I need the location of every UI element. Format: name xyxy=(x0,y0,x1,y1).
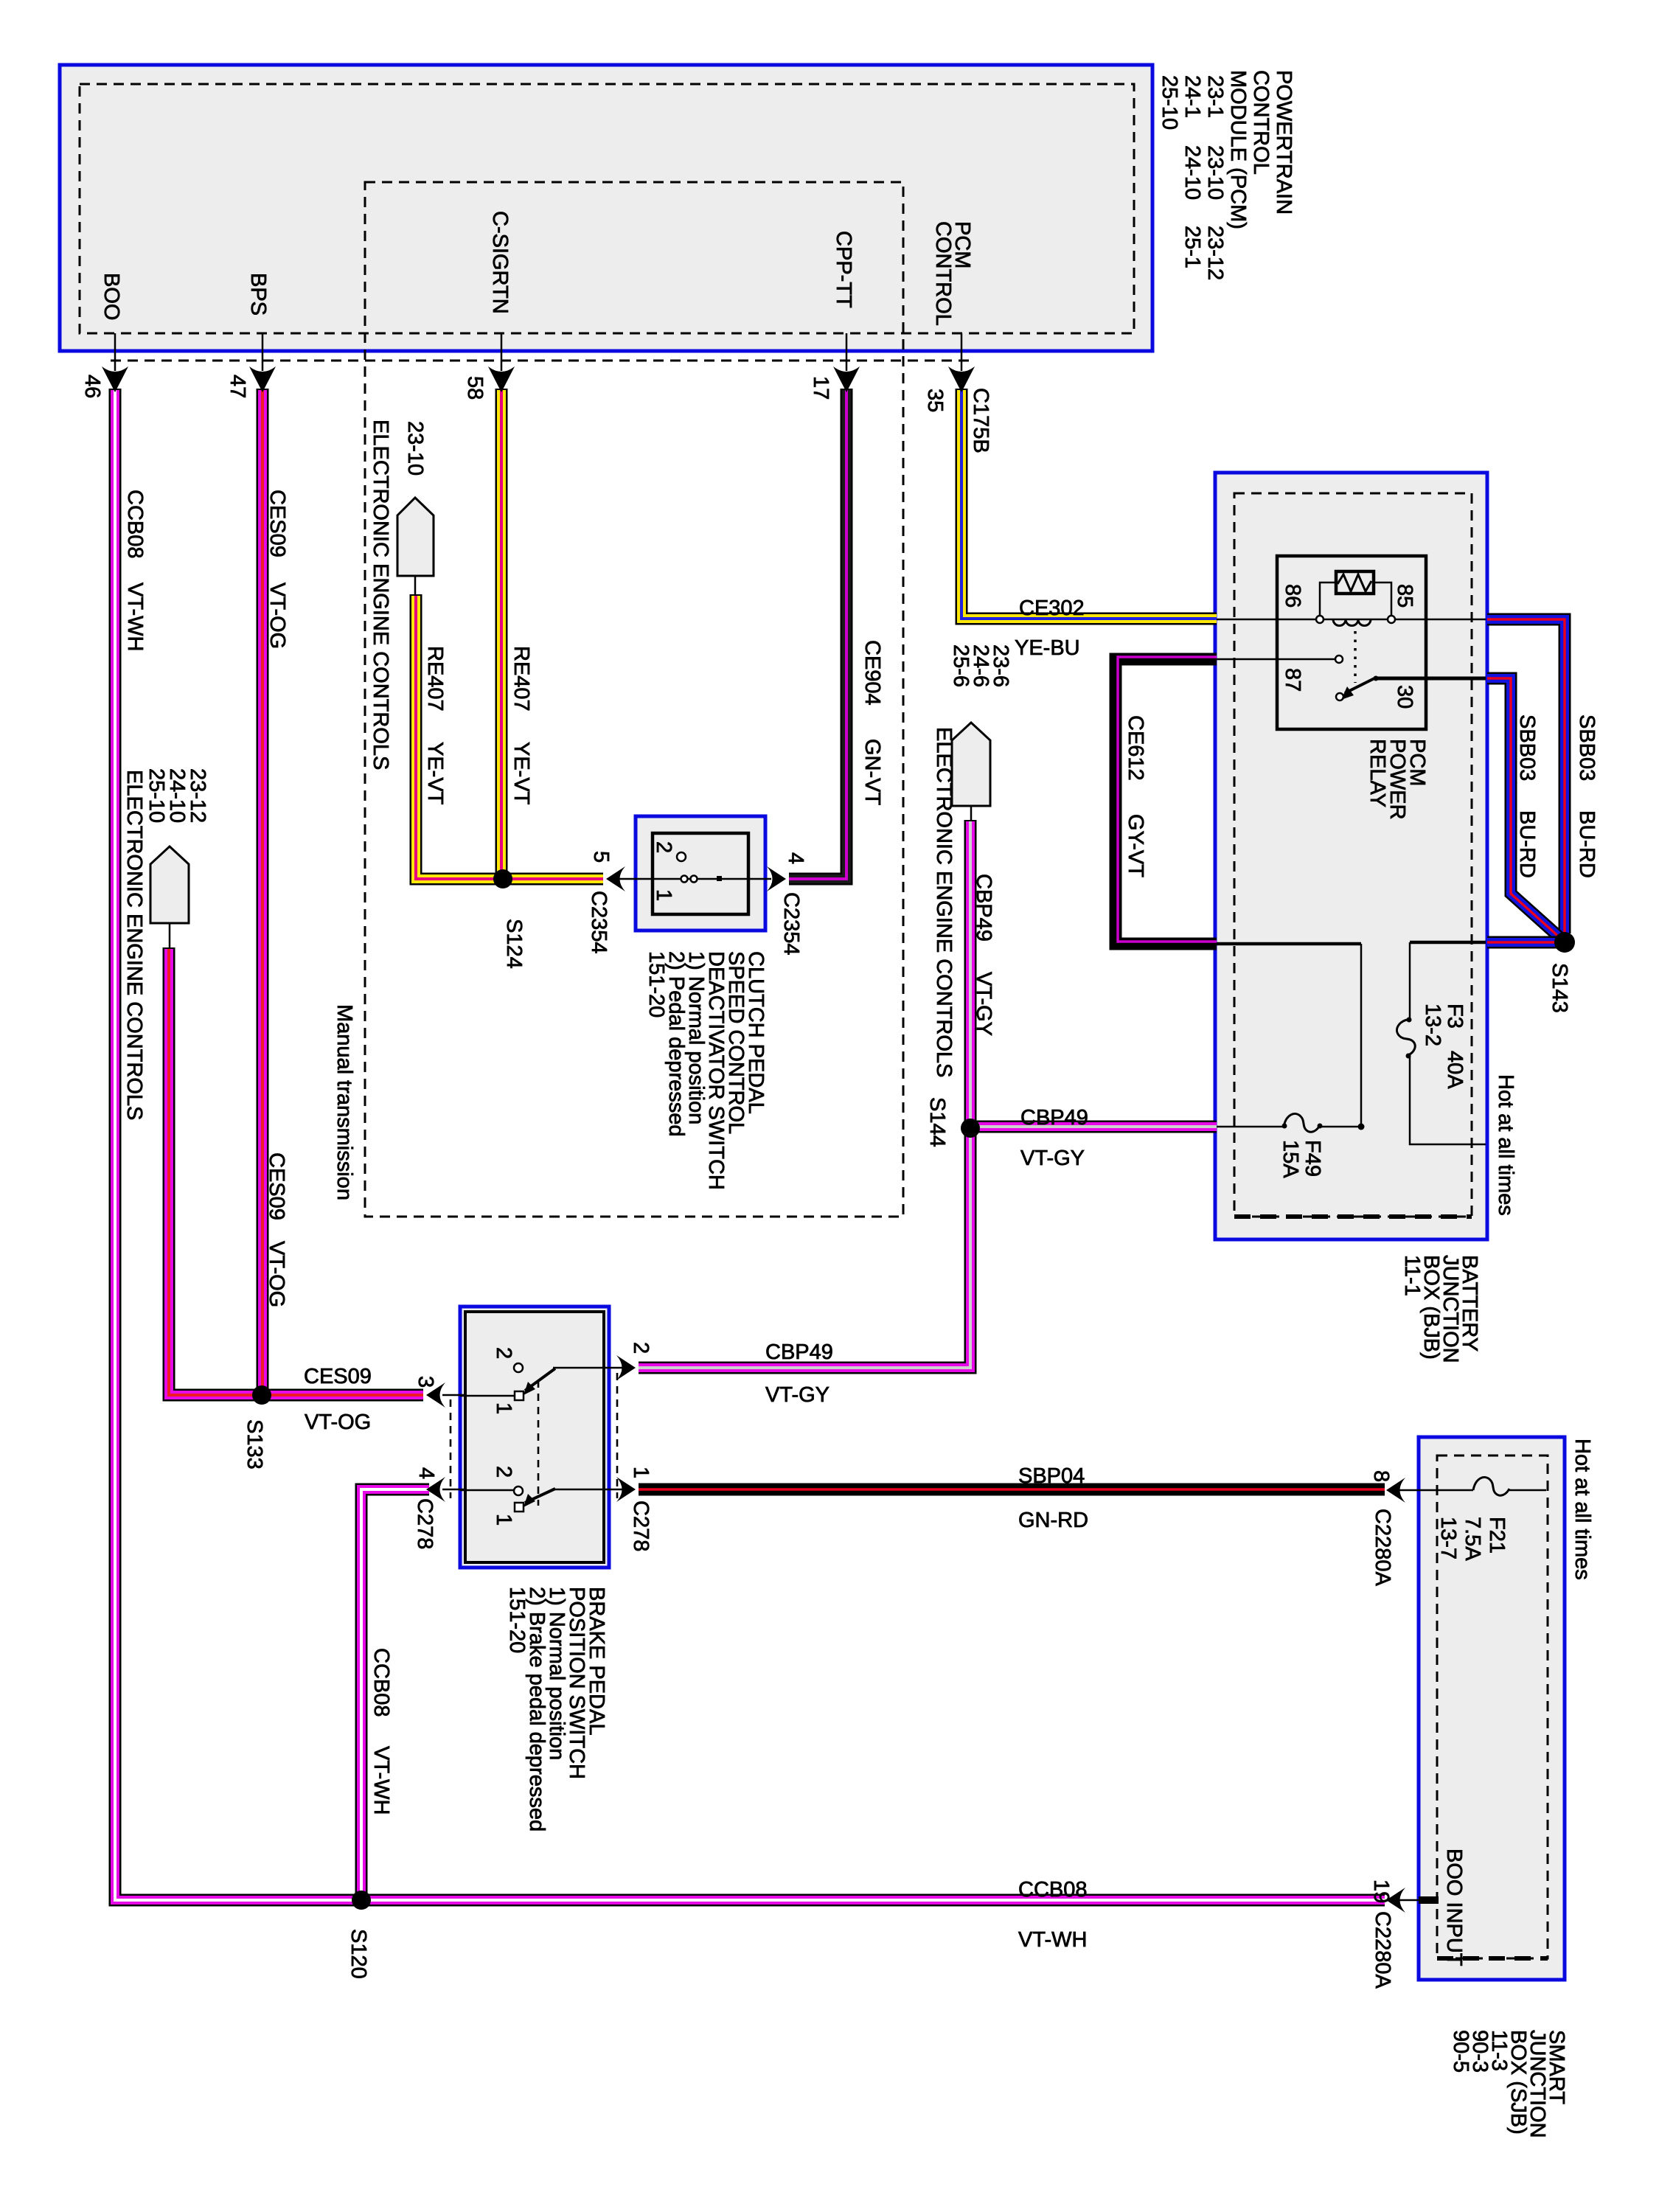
label wire CE904 GN-VT xyxy=(860,640,884,806)
label PCM POWER RELAY xyxy=(1366,739,1429,820)
wire SBP04 GN-RD from brake switch pin 1 to SJB pin 8 xyxy=(639,1484,1385,1496)
clutch switch internals xyxy=(619,852,771,883)
dashed connector line C278 right xyxy=(616,1373,619,1498)
svg-text:2: 2 xyxy=(652,841,675,853)
label clutch pin 2 xyxy=(652,841,675,853)
svg-text:87: 87 xyxy=(1281,668,1304,692)
fuse F3 40A xyxy=(1397,942,1486,1144)
svg-text:VT-OG: VT-OG xyxy=(265,582,289,649)
label Hot at all times SJB xyxy=(1571,1439,1594,1580)
label connector C2354 left xyxy=(587,891,611,953)
svg-text:13-2: 13-2 xyxy=(1421,1004,1444,1046)
svg-text:35: 35 xyxy=(923,389,947,412)
svg-text:7.5A: 7.5A xyxy=(1461,1517,1484,1561)
splice dot S124 xyxy=(493,869,512,888)
svg-text:2: 2 xyxy=(492,1466,515,1478)
label wire CE612 GY-VT xyxy=(1124,715,1147,877)
svg-text:SBB03: SBB03 xyxy=(1515,714,1539,781)
wire SBB03 BU-RD from S143 into BJB fuse F3 xyxy=(1487,936,1565,949)
wire CES09 VT-OG branch S133 to pennant and to pin 3 xyxy=(169,947,423,1395)
svg-text:CONTROL: CONTROL xyxy=(931,221,955,326)
splice dot S133 xyxy=(252,1385,271,1405)
svg-text:1: 1 xyxy=(492,1402,515,1414)
svg-text:C175B: C175B xyxy=(969,388,992,453)
label relay pin 85 xyxy=(1393,584,1416,608)
wire CE612 GY-VT from relay pin 87 loop to fuse F49 feed xyxy=(1116,657,1217,944)
label pennant 3 ELECTRONIC ENGINE CONTROLS xyxy=(932,727,956,1077)
clutch pedal switch box xyxy=(636,816,765,931)
label SMART JUNCTION BOX xyxy=(1449,2030,1568,2138)
svg-text:2: 2 xyxy=(629,1342,653,1354)
SJB pin 19 in-arrow xyxy=(1386,1888,1405,1913)
label wire CES09 VT-OG vertical lower xyxy=(265,1152,288,1307)
svg-text:VT-OG: VT-OG xyxy=(265,1241,288,1307)
svg-text:C2354: C2354 xyxy=(587,891,611,953)
wire CE302 YE-BU from PCM pin 35 C175B to BJB xyxy=(961,389,1217,619)
brake switch internals upper xyxy=(460,1363,624,1400)
svg-text:BU-RD: BU-RD xyxy=(1515,810,1539,878)
label pennant 1 ELECTRONIC ENGINE CONTROLS xyxy=(369,420,392,770)
BJB bus line from CE612 to fuse F49 xyxy=(1217,942,1361,946)
label SJB pin 8 xyxy=(1369,1470,1393,1482)
splice dot S144 xyxy=(961,1119,980,1138)
label connector C175B xyxy=(969,388,992,453)
pennant flag 2 electronic engine controls xyxy=(150,846,189,923)
brake pin 1 out-arrow xyxy=(616,1477,636,1502)
wire CES09 VT-OG (BPS circuit) xyxy=(257,389,269,1395)
wire CCB08 VT-WH (BOO circuit) xyxy=(115,389,1385,1900)
pin out-arrow 58 xyxy=(488,366,515,392)
relay junction dot 86 xyxy=(1316,616,1324,623)
dashed connector line C175B xyxy=(111,360,973,362)
svg-text:ELECTRONIC ENGINE CONTROLS: ELECTRONIC ENGINE CONTROLS xyxy=(369,420,392,770)
svg-text:86: 86 xyxy=(1281,584,1304,608)
svg-text:CES09: CES09 xyxy=(265,1152,288,1220)
svg-text:YE-VT: YE-VT xyxy=(509,742,533,805)
svg-text:ELECTRONIC ENGINE CONTROLS: ELECTRONIC ENGINE CONTROLS xyxy=(932,727,956,1077)
pennant flag 1 electronic engine controls xyxy=(397,498,434,576)
svg-text:CCB08: CCB08 xyxy=(369,1648,393,1717)
svg-text:24-124-1025-1: 24-124-1025-1 xyxy=(1180,75,1204,268)
label S144 xyxy=(925,1097,949,1147)
brake pin 2 out-arrow xyxy=(616,1355,636,1380)
relay coil scallops xyxy=(1333,619,1371,626)
svg-text:S144: S144 xyxy=(925,1097,949,1147)
label wire SBB03 BU-RD outer xyxy=(1575,714,1599,878)
SJB pin 8 in-arrow xyxy=(1386,1478,1405,1503)
brake pin 3 in-arrow xyxy=(426,1382,445,1408)
svg-text:CES09: CES09 xyxy=(304,1365,372,1388)
brake pedal position switch box xyxy=(460,1307,609,1568)
svg-text:2: 2 xyxy=(492,1347,515,1359)
wire pin 4 stub xyxy=(442,1489,466,1491)
brake pin 4 in-arrow xyxy=(426,1477,445,1502)
svg-text:VT-GY: VT-GY xyxy=(1020,1147,1085,1170)
label PCM CONTROL xyxy=(931,221,974,326)
pennant flag 3 electronic engine controls xyxy=(952,723,990,806)
pin out-arrow 35 xyxy=(948,366,975,392)
svg-text:CBP49: CBP49 xyxy=(765,1340,833,1364)
svg-text:YE-BU: YE-BU xyxy=(1015,636,1080,660)
wire CCB08 VT-WH branch from brake switch pin 4 to S120 xyxy=(361,1489,429,1900)
label connector C278 right xyxy=(629,1500,653,1551)
label pin 46 xyxy=(80,375,104,398)
label connector C278 left xyxy=(413,1498,437,1549)
svg-text:C2354: C2354 xyxy=(779,892,803,955)
label fuse F3 40A 13-2 xyxy=(1421,1004,1467,1089)
label brake switch inner pin 1 lower xyxy=(492,1514,515,1526)
label wire CCB08 VT-WH branch vertical xyxy=(369,1648,393,1815)
label pin 58 xyxy=(463,376,487,400)
svg-text:58: 58 xyxy=(463,376,487,400)
label pin 17 xyxy=(809,376,832,400)
dashed box electronic engine controls / manual transmission xyxy=(365,182,903,1217)
svg-text:SBB03: SBB03 xyxy=(1575,714,1599,781)
svg-text:POWERTRAIN: POWERTRAIN xyxy=(1272,70,1295,215)
label brake pin 4 xyxy=(414,1467,438,1479)
label S120 xyxy=(347,1929,370,1979)
label BOO xyxy=(100,273,123,320)
label clutch switch xyxy=(644,951,768,1190)
label pennant 2 refs xyxy=(145,768,209,823)
brake switch internals lower xyxy=(460,1486,624,1512)
svg-text:5: 5 xyxy=(589,851,613,863)
label wire RE407 YE-VT branch xyxy=(423,646,447,805)
svg-text:VT-WH: VT-WH xyxy=(1018,1928,1087,1952)
svg-text:CE612: CE612 xyxy=(1124,715,1147,781)
svg-text:CBP49: CBP49 xyxy=(1020,1106,1088,1130)
svg-text:C278: C278 xyxy=(413,1498,437,1549)
splice dot S120 xyxy=(352,1891,371,1910)
dashed mechanical link brake switch xyxy=(538,1380,540,1506)
label brake switch xyxy=(505,1587,608,1832)
svg-text:CES09: CES09 xyxy=(265,490,289,557)
SJB fuse F21 7.5A line from pin 8 xyxy=(1395,1489,1473,1492)
dashed connector line C278 left xyxy=(450,1399,452,1498)
label PCM header xyxy=(1158,70,1295,280)
svg-text:4: 4 xyxy=(784,852,807,864)
fuse F49 15A xyxy=(1217,1113,1365,1132)
svg-text:15A: 15A xyxy=(1279,1140,1302,1178)
svg-text:CE302: CE302 xyxy=(1019,597,1085,620)
svg-text:CCB08: CCB08 xyxy=(123,490,147,559)
svg-text:C-SIGRTN: C-SIGRTN xyxy=(488,211,512,314)
svg-text:23-123-1023-12: 23-123-1023-12 xyxy=(1203,75,1227,280)
svg-text:S133: S133 xyxy=(243,1419,266,1470)
label wire RE407 YE-VT main xyxy=(509,646,533,805)
wire SBB03 BU-RD from relay coil pin 85 line down right side xyxy=(1487,619,1565,933)
svg-text:151-20: 151-20 xyxy=(505,1587,529,1653)
label connector C2280A bottom xyxy=(1371,1911,1394,1989)
svg-text:1: 1 xyxy=(629,1467,653,1478)
svg-text:85: 85 xyxy=(1393,584,1416,608)
svg-text:4: 4 xyxy=(414,1467,438,1479)
label pennant 2 ELECTRONIC ENGINE CONTROLS xyxy=(122,770,146,1120)
relay coil leads xyxy=(1320,582,1336,616)
svg-text:90-5: 90-5 xyxy=(1449,2030,1472,2073)
wire RE407 YE-VT branch from pennant to S124 xyxy=(416,594,503,879)
wire CE904 GN-VT from clutch switch pin 4 to PCM pin 17 xyxy=(789,389,846,879)
label fuse F49 15A xyxy=(1279,1140,1324,1178)
PCM module box xyxy=(60,65,1152,351)
svg-text:151-20: 151-20 xyxy=(644,951,668,1018)
pin out-arrow 46 xyxy=(102,366,128,392)
svg-text:CBP49: CBP49 xyxy=(972,874,995,942)
svg-text:F49: F49 xyxy=(1301,1140,1324,1177)
svg-text:BPS: BPS xyxy=(246,273,270,316)
BJB bus line from S143 to fuse F3 xyxy=(1410,941,1486,945)
PCM power relay box xyxy=(1277,556,1426,729)
svg-text:11-1: 11-1 xyxy=(1400,1255,1424,1296)
svg-text:CONTROL: CONTROL xyxy=(1249,70,1273,175)
svg-text:BU-RD: BU-RD xyxy=(1575,810,1599,878)
label Manual transmission xyxy=(333,1004,356,1200)
wire RE407 YE-VT from PCM pin 58 to S124 and to clutch switch pin 5 xyxy=(501,389,603,879)
relay armature switch xyxy=(1336,693,1343,700)
label BATTERY JUNCTION BOX xyxy=(1400,1255,1481,1363)
SJB pin 19 stub to BOO INPUT xyxy=(1395,1899,1419,1902)
svg-text:Hot at all times: Hot at all times xyxy=(1571,1439,1594,1580)
svg-text:40A: 40A xyxy=(1443,1051,1467,1089)
BJB battery junction box xyxy=(1215,473,1487,1239)
splice dot S143 xyxy=(1554,932,1575,953)
svg-text:RE407: RE407 xyxy=(423,646,447,712)
pin out-arrow 17 xyxy=(833,366,860,392)
label clutch pin 1 xyxy=(652,889,675,901)
svg-text:GN-RD: GN-RD xyxy=(1018,1509,1088,1532)
svg-text:25-10: 25-10 xyxy=(145,768,168,823)
label pin 47 xyxy=(226,375,249,398)
label brake switch inner pin 1 upper xyxy=(492,1402,515,1414)
svg-text:Hot at all times: Hot at all times xyxy=(1494,1074,1517,1216)
label wire SBB03 BU-RD inner xyxy=(1515,714,1539,878)
svg-text:VT-GY: VT-GY xyxy=(972,972,995,1036)
label pennant 1 refs 23-10 xyxy=(403,421,427,476)
svg-text:CCB08: CCB08 xyxy=(1018,1878,1088,1902)
label brake pin 1 xyxy=(629,1467,653,1478)
wire CBP49 VT-GY from pennant through S144 to brake switch pin 2 xyxy=(639,820,970,1368)
PCM pin stub lines xyxy=(114,333,116,371)
svg-text:Manual transmission: Manual transmission xyxy=(333,1004,356,1200)
relay coil resistor box xyxy=(1336,571,1374,594)
wire pin 3 stub xyxy=(442,1394,466,1397)
svg-text:RELAY: RELAY xyxy=(1366,739,1389,807)
svg-text:VT-WH: VT-WH xyxy=(123,582,147,651)
label BPS xyxy=(246,273,270,316)
label fuse F21 7.5A 13-7 xyxy=(1436,1517,1509,1561)
svg-text:GY-VT: GY-VT xyxy=(1124,814,1147,877)
label connector C2354 right xyxy=(779,892,803,955)
relay 86-85 line through coil xyxy=(1217,619,1486,621)
label brake pin 3 xyxy=(414,1376,437,1388)
label connector C2280A top xyxy=(1371,1509,1394,1586)
svg-text:VT-OG: VT-OG xyxy=(305,1411,371,1434)
svg-text:25-6: 25-6 xyxy=(949,644,973,687)
label relay pin 87 xyxy=(1281,668,1304,692)
label brake pin 2 xyxy=(629,1342,653,1354)
svg-text:19: 19 xyxy=(1369,1879,1393,1903)
label pin 35 xyxy=(923,389,947,412)
label wire CES09 VT-OG vertical top xyxy=(265,490,289,649)
svg-text:GN-VT: GN-VT xyxy=(860,739,884,806)
svg-text:13-7: 13-7 xyxy=(1436,1517,1460,1559)
clutch pin 5 in-arrow xyxy=(606,866,625,891)
svg-text:SBP04: SBP04 xyxy=(1018,1464,1085,1488)
svg-text:C2280A: C2280A xyxy=(1371,1509,1394,1586)
svg-text:1: 1 xyxy=(652,889,675,901)
label relay pin 30 xyxy=(1393,685,1416,709)
wire SBB03 BU-RD from relay pin 30 diagonal to S143 xyxy=(1487,678,1560,938)
svg-text:8: 8 xyxy=(1369,1470,1393,1482)
svg-text:S120: S120 xyxy=(347,1929,370,1979)
svg-text:46: 46 xyxy=(80,375,104,398)
label BOO INPUT xyxy=(1442,1848,1466,1966)
svg-text:1: 1 xyxy=(492,1514,515,1526)
label C-SIGRTN xyxy=(488,211,512,314)
label wire CCB08 VT-WH vertical xyxy=(123,490,147,651)
svg-text:S124: S124 xyxy=(502,919,526,969)
svg-text:C2280A: C2280A xyxy=(1371,1911,1394,1989)
label S124 xyxy=(502,919,526,969)
label Hot at all times BJB xyxy=(1494,1074,1517,1216)
svg-text:MODULE (PCM): MODULE (PCM) xyxy=(1226,70,1250,229)
label S143 xyxy=(1548,963,1571,1013)
label S133 xyxy=(243,1419,266,1470)
relay pin 87 line xyxy=(1217,658,1335,661)
svg-text:BOO: BOO xyxy=(100,273,123,320)
label brake switch inner pin 2 upper xyxy=(492,1347,515,1359)
svg-text:RE407: RE407 xyxy=(509,646,533,712)
svg-text:S143: S143 xyxy=(1548,963,1571,1013)
svg-text:ELECTRONIC ENGINE CONTROLS: ELECTRONIC ENGINE CONTROLS xyxy=(122,770,146,1120)
SJB smart junction box xyxy=(1419,1437,1565,1980)
svg-text:YE-VT: YE-VT xyxy=(423,742,447,805)
relay armature dotted link xyxy=(1354,631,1357,683)
label pennant 3 refs xyxy=(949,644,1012,687)
svg-text:VT-GY: VT-GY xyxy=(765,1383,829,1407)
wire CBP49 VT-GY spur S144 into BJB fuse F49 xyxy=(970,1121,1217,1133)
label SJB pin 19 xyxy=(1369,1879,1393,1903)
relay pin 30 line xyxy=(1376,677,1486,681)
svg-text:47: 47 xyxy=(226,375,249,398)
clutch pin 4 out-arrow xyxy=(767,866,786,891)
pin out-arrow 47 xyxy=(249,366,276,392)
svg-text:25-10: 25-10 xyxy=(1158,75,1181,130)
svg-text:3: 3 xyxy=(414,1376,437,1388)
svg-text:F3: F3 xyxy=(1443,1004,1467,1029)
label clutch pin 4 xyxy=(784,852,807,864)
svg-text:F21: F21 xyxy=(1485,1517,1509,1554)
svg-text:17: 17 xyxy=(809,376,832,400)
svg-text:BOO INPUT: BOO INPUT xyxy=(1442,1848,1466,1966)
svg-text:23-10: 23-10 xyxy=(403,421,427,476)
svg-text:30: 30 xyxy=(1393,685,1416,709)
svg-text:CPP-TT: CPP-TT xyxy=(832,231,855,308)
label relay pin 86 xyxy=(1281,584,1304,608)
relay junction dot 85 xyxy=(1388,616,1395,623)
svg-text:C278: C278 xyxy=(629,1500,653,1551)
label wire CBP49 VT-GY vertical xyxy=(972,874,995,1036)
svg-text:VT-WH: VT-WH xyxy=(369,1746,393,1815)
label clutch pin 5 xyxy=(589,851,613,863)
label brake switch inner pin 2 lower xyxy=(492,1466,515,1478)
label CPP-TT xyxy=(832,231,855,308)
svg-text:CE904: CE904 xyxy=(860,640,884,706)
